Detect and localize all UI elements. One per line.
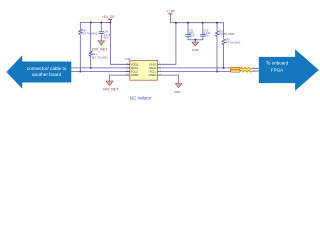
svg-text:4K7 2%-0603: 4K7 2%-0603	[92, 56, 108, 60]
port arrow: connector/cable to another board	[6, 55, 71, 88]
svg-text:connector/ cable to: connector/ cable to	[27, 66, 67, 71]
svg-text:4K7 2%-0603: 4K7 2%-0603	[225, 40, 241, 44]
resistor R36 (pull-up to SDA1)	[222, 23, 241, 68]
wire: decoupling ground rail	[188, 39, 203, 41]
wire: SCL2	[71, 71, 130, 73]
svg-text:GND2: GND2	[131, 73, 139, 77]
svg-text:10uF: 10uF	[189, 34, 195, 38]
svg-text:24V_RET: 24V_RET	[92, 47, 109, 51]
power port +1.8V	[166, 10, 176, 23]
junction dot (power/bus)	[109, 22, 111, 24]
wire: right +1.8V bus	[170, 22, 223, 24]
svg-text:another board: another board	[32, 72, 62, 77]
pin stubs left	[126, 63, 130, 65]
wire: SDA2	[71, 67, 130, 69]
port arrow: To onboard FPGA	[259, 49, 319, 91]
series resistor R39 (SCL to FPGA)	[230, 70, 256, 73]
power port 24V_RET (GND2)	[103, 81, 120, 92]
junction dot (R40 / SCL2)	[79, 71, 81, 73]
power port +5V_DC	[102, 15, 115, 22]
svg-text:GND1: GND1	[149, 73, 157, 77]
resistor R41 (pull-up to SDA2)	[89, 23, 108, 68]
junction dot (bus / R41)	[90, 22, 92, 24]
wire: SDA1	[161, 67, 230, 69]
junction dot (bus / VDD1 feed)	[175, 22, 177, 24]
junction dot (bus / C30)	[202, 22, 204, 24]
svg-text:+1.8V: +1.8V	[166, 10, 176, 14]
svg-text:I2C Isolator: I2C Isolator	[130, 96, 152, 101]
wire: GND1 to ground	[161, 75, 178, 83]
junction dot (R36 / SDA1)	[223, 67, 225, 69]
svg-text:FPGA: FPGA	[271, 67, 283, 72]
svg-text:4K7 2%-0603: 4K7 2%-0603	[219, 32, 235, 36]
junction dot (bus / R37)	[216, 22, 218, 24]
series resistor R38 (SDA to FPGA)	[230, 67, 256, 69]
junction dot (rail / gnd)	[194, 39, 196, 41]
wire: left +5V bus	[80, 22, 110, 24]
resistor R40 (pull-up to SCL2)	[79, 23, 98, 72]
junction dot (R37 / SCL1)	[216, 71, 218, 73]
svg-text:50V: 50V	[104, 35, 109, 39]
junction dot (R41 / SDA2)	[90, 67, 92, 69]
svg-text:GND: GND	[174, 90, 182, 94]
wire: SCL1	[161, 71, 230, 73]
svg-text:To onboard: To onboard	[266, 60, 289, 65]
wire: SCL to FPGA arrow	[252, 70, 259, 72]
svg-text:GND: GND	[192, 48, 200, 52]
svg-text:50V: 50V	[204, 34, 209, 38]
svg-text:4K7 2%-0603: 4K7 2%-0603	[82, 31, 98, 35]
svg-text:24V_RET: 24V_RET	[103, 88, 120, 92]
op IC U30 I2C isolator	[125, 57, 161, 80]
wire: GND2 return	[110, 75, 130, 81]
pin stubs right	[157, 63, 161, 65]
capacitor C31	[185, 23, 195, 40]
svg-text:+5V_DC: +5V_DC	[102, 15, 115, 19]
wire: VDD2 feed	[110, 23, 129, 65]
ground GND (GND1)	[174, 83, 182, 94]
junction dot (bus / C40)	[100, 22, 102, 24]
ground GND (caps)	[192, 40, 200, 52]
capacitor C40	[99, 23, 111, 41]
wire: VDD1 feed	[161, 23, 176, 65]
svg-text:R41: R41	[92, 52, 97, 56]
power port 24V_RET (under C40)	[92, 41, 109, 52]
junction dot (bus / C31)	[187, 22, 189, 24]
capacitor C30	[200, 23, 211, 40]
wire: SDA to FPGA arrow	[252, 67, 259, 69]
resistor R37 (pull-up to SCL1)	[216, 23, 235, 72]
